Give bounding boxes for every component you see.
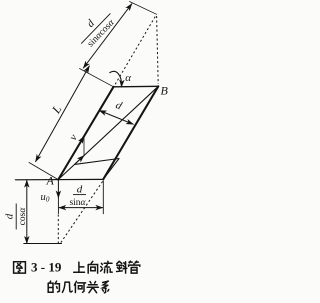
svg-text:d: d (85, 17, 98, 30)
svg-text:α: α (125, 72, 131, 84)
svg-text:B: B (161, 84, 169, 98)
svg-text:u0: u0 (41, 192, 50, 204)
svg-text:d: d (114, 99, 124, 112)
svg-text:A: A (46, 174, 55, 188)
svg-text:cosα: cosα (18, 207, 28, 226)
svg-text:d: d (77, 184, 83, 196)
svg-text:d: d (4, 213, 16, 219)
svg-text:sinα: sinα (69, 198, 86, 208)
svg-text:3 - 19: 3 - 19 (31, 260, 62, 275)
svg-text:v: v (67, 132, 80, 143)
